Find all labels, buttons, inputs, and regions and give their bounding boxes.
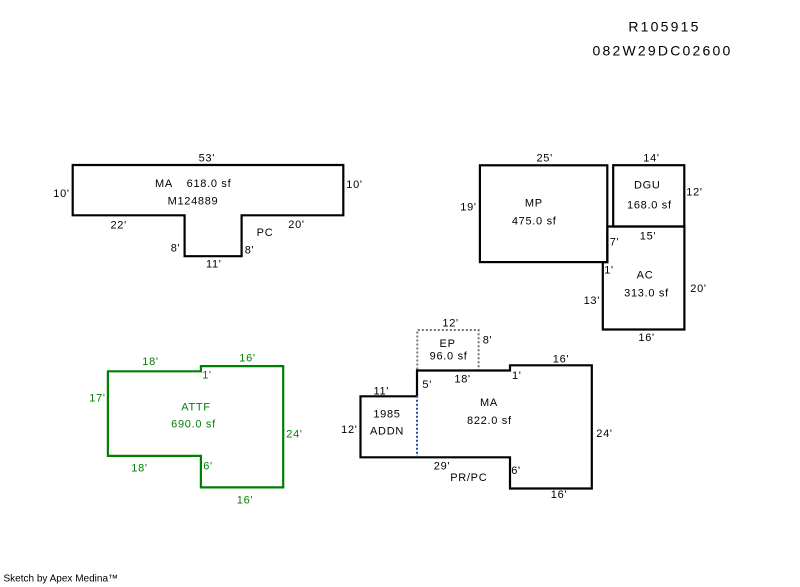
svg-text:MA: MA (155, 178, 173, 190)
svg-text:M124889: M124889 (168, 196, 219, 208)
svg-text:690.0 sf: 690.0 sf (171, 419, 216, 431)
svg-text:10': 10' (346, 179, 362, 191)
svg-text:17': 17' (89, 393, 105, 405)
svg-text:16': 16' (638, 332, 654, 344)
svg-text:16': 16' (237, 495, 253, 507)
svg-text:12': 12' (442, 318, 458, 330)
svg-text:6': 6' (203, 461, 213, 473)
svg-text:16': 16' (553, 354, 569, 366)
svg-text:13': 13' (584, 295, 600, 307)
svg-text:PR/PC: PR/PC (450, 472, 487, 484)
svg-text:96.0 sf: 96.0 sf (430, 351, 468, 363)
svg-text:168.0 sf: 168.0 sf (627, 200, 672, 212)
svg-text:20': 20' (288, 219, 304, 231)
svg-text:ADDN: ADDN (370, 426, 404, 438)
svg-text:53': 53' (199, 153, 215, 165)
svg-text:R105915: R105915 (628, 19, 700, 35)
svg-text:29': 29' (434, 461, 450, 473)
svg-text:MP: MP (525, 198, 543, 210)
svg-text:ATTF: ATTF (181, 402, 210, 414)
svg-text:822.0 sf: 822.0 sf (467, 415, 512, 427)
svg-text:12': 12' (341, 424, 357, 436)
svg-text:20': 20' (690, 283, 706, 295)
attic ATTF green outline 690.0 sf (108, 366, 283, 487)
building MP outline 475.0 sf (480, 165, 607, 262)
svg-text:DGU: DGU (634, 180, 661, 192)
svg-text:8': 8' (245, 245, 255, 257)
svg-text:AC: AC (637, 270, 654, 282)
partition blue dotted line between 1985 ADDN and MA (416, 396, 418, 457)
svg-text:5': 5' (422, 379, 432, 391)
building MA (top-left) outline 618.0 sf (73, 165, 344, 256)
svg-text:11': 11' (373, 386, 389, 398)
porch EP dotted outline 96.0 sf (417, 330, 478, 370)
svg-text:11': 11' (206, 259, 222, 271)
svg-text:16': 16' (239, 353, 255, 365)
svg-text:1': 1' (202, 370, 212, 382)
building MA (bottom-right) outline 822.0 sf (361, 365, 592, 488)
svg-text:1985: 1985 (373, 409, 400, 421)
svg-text:15': 15' (640, 231, 656, 243)
svg-text:1': 1' (604, 265, 614, 277)
building DGU outline 168.0 sf (613, 165, 684, 226)
svg-text:313.0 sf: 313.0 sf (624, 288, 669, 300)
svg-text:1': 1' (512, 370, 522, 382)
svg-text:19': 19' (460, 202, 476, 214)
svg-text:6': 6' (511, 465, 521, 477)
svg-text:PC: PC (257, 227, 274, 239)
svg-text:16': 16' (551, 489, 567, 501)
svg-text:618.0 sf: 618.0 sf (187, 178, 232, 190)
svg-text:12': 12' (686, 187, 702, 199)
svg-text:EP: EP (440, 338, 456, 350)
svg-text:MA: MA (480, 397, 498, 409)
svg-text:24': 24' (596, 428, 612, 440)
svg-text:18': 18' (454, 374, 470, 386)
svg-text:475.0 sf: 475.0 sf (512, 216, 557, 228)
svg-text:7': 7' (610, 237, 620, 249)
svg-text:082W29DC02600: 082W29DC02600 (593, 43, 733, 59)
svg-text:18': 18' (131, 463, 147, 475)
svg-text:18': 18' (142, 356, 158, 368)
svg-text:14': 14' (643, 153, 659, 165)
svg-text:10': 10' (53, 188, 69, 200)
svg-text:24': 24' (286, 429, 302, 441)
svg-text:8': 8' (483, 335, 493, 347)
svg-text:Sketch by Apex Medina™: Sketch by Apex Medina™ (4, 574, 119, 585)
svg-text:25': 25' (536, 153, 552, 165)
building AC outline 313.0 sf (603, 227, 685, 330)
svg-text:22': 22' (110, 220, 126, 232)
svg-text:8': 8' (171, 243, 181, 255)
